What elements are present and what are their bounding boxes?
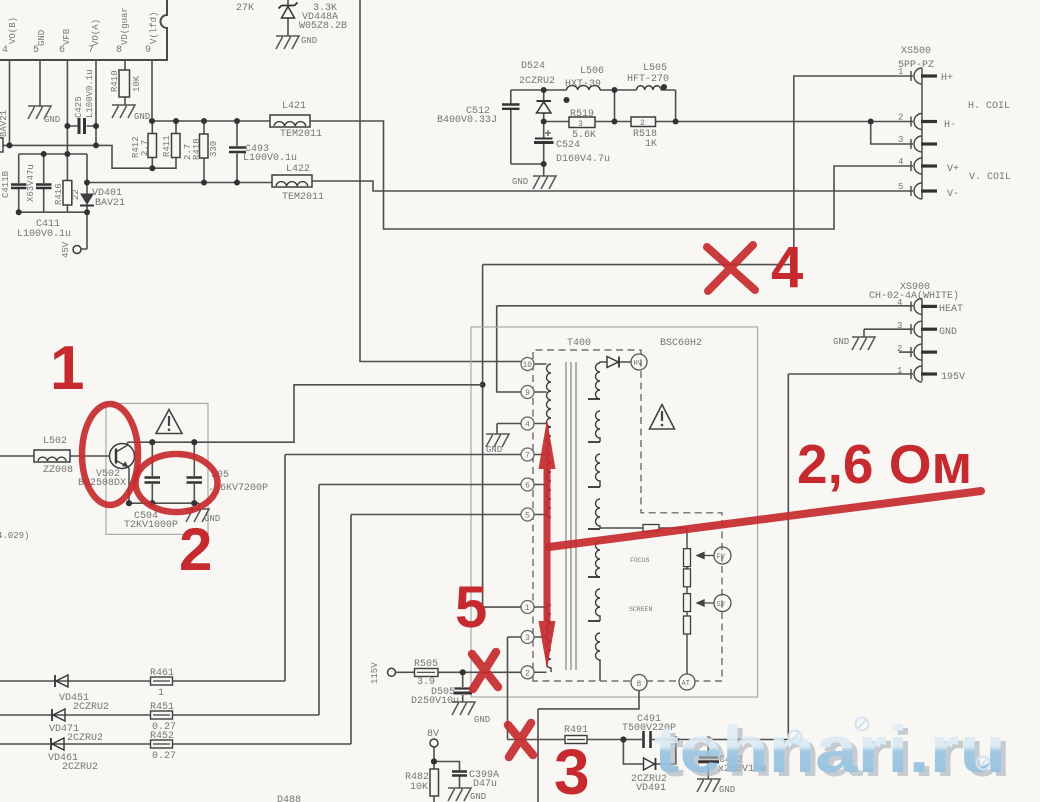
terminal 8V: [427, 729, 439, 747]
ground R410: [112, 105, 150, 122]
svg-text:2: 2: [525, 669, 530, 678]
svg-text:CH-02-4A(WHITE): CH-02-4A(WHITE): [869, 290, 959, 302]
terminal -45V: [61, 241, 81, 258]
capacitor C491 T500V220P: [622, 714, 676, 748]
wire focus tap: [600, 528, 687, 549]
wire 115V to T400 pin2: [463, 671, 521, 673]
svg-text:2,6 Ом: 2,6 Ом: [797, 433, 972, 495]
focus/screen divider resistor 4: [684, 616, 691, 634]
svg-text:4: 4: [897, 298, 902, 308]
svg-text:0.27: 0.27: [152, 751, 176, 762]
wire L422 to V- route: [312, 181, 913, 191]
svg-text:D250V10u: D250V10u: [411, 696, 459, 707]
svg-text:R491: R491: [564, 725, 588, 736]
svg-text:W05Z8.2B: W05Z8.2B: [299, 21, 347, 32]
svg-text:L502: L502: [43, 436, 67, 447]
diode VD451 2CZRU2: [55, 675, 109, 713]
svg-text:BSC60H2: BSC60H2: [660, 338, 702, 349]
left edge component fragment: [0, 110, 9, 152]
wire rail y121: [152, 120, 270, 122]
terminal 115V: [370, 662, 396, 684]
warning triangle V502: [156, 410, 182, 434]
pin 1 195V: [911, 366, 937, 382]
svg-text:2: 2: [898, 113, 903, 123]
capacitor C411B: [1, 154, 27, 212]
pin 4 V+: [911, 158, 937, 174]
svg-text:SCREEN: SCREEN: [629, 606, 653, 613]
svg-text:FOCUS: FOCUS: [630, 557, 650, 564]
svg-text:10: 10: [523, 361, 533, 370]
svg-text:27K: 27K: [236, 3, 254, 14]
svg-text:330: 330: [209, 141, 219, 157]
svg-text:D524: D524: [521, 61, 545, 72]
red annotation ellipse around V502: [82, 404, 138, 505]
svg-text:L100V0.1u: L100V0.1u: [243, 153, 297, 164]
svg-text:1: 1: [898, 67, 903, 77]
T400 secondary winding: [596, 363, 601, 667]
svg-text:115V: 115V: [370, 662, 380, 684]
pin 2 H-: [911, 114, 937, 130]
svg-text:D160V4.7u: D160V4.7u: [556, 154, 610, 165]
svg-text:R451: R451: [150, 702, 174, 713]
inductor L421 TEM2011: [270, 101, 322, 140]
svg-text:HXT-39: HXT-39: [565, 79, 601, 90]
wire pin4 down: [9, 60, 11, 145]
ground D524: [512, 176, 556, 189]
svg-text:8: 8: [637, 680, 642, 689]
svg-text:2CZRU2: 2CZRU2: [67, 733, 103, 744]
ground C399A: [448, 788, 486, 802]
T400 primary winding lower: [547, 605, 552, 672]
capacitor C505 1.6KV7200P: [187, 442, 269, 503]
resistor R518 1K: [595, 117, 676, 150]
transformer T400 outer box: [471, 327, 758, 697]
svg-text:GND: GND: [474, 715, 490, 725]
svg-text:V+: V+: [947, 164, 959, 175]
junction dots top-left: [7, 118, 241, 215]
HV terminal circle: [631, 354, 647, 370]
FV wiper arrow: [697, 553, 714, 559]
wire pin7 down: [95, 60, 97, 145]
svg-text:R452: R452: [150, 731, 174, 742]
red annotation X mark at R491: [508, 723, 533, 757]
connector XS500 5PP-PZ: [898, 46, 1011, 200]
capacitor C492 x250V10u: [698, 740, 766, 780]
svg-text:R505: R505: [414, 659, 438, 670]
svg-text:V. COIL: V. COIL: [969, 172, 1011, 183]
svg-text:3: 3: [578, 120, 583, 129]
svg-text:3: 3: [525, 634, 530, 643]
svg-text:L100V0.1u: L100V0.1u: [85, 69, 95, 118]
wire pin8 to R410: [124, 60, 126, 105]
ground D505: [452, 702, 490, 725]
diode VD491 2CZRU2: [623, 740, 675, 795]
svg-text:10K: 10K: [410, 782, 428, 793]
resistor R491: [564, 725, 588, 744]
wire T400 pin6 left-down: [319, 485, 521, 716]
zener VD448A W05Z8.2B: [279, 0, 348, 36]
svg-text:6: 6: [59, 45, 65, 56]
junction dots D524 area: [541, 84, 874, 167]
svg-text:10K: 10K: [132, 75, 142, 92]
svg-text:VO(A): VO(A): [91, 19, 101, 46]
svg-text:T400: T400: [567, 338, 591, 349]
svg-text:9: 9: [525, 389, 530, 398]
inductor L422 TEM2011: [272, 164, 324, 203]
wire 195V line: [788, 374, 913, 739]
wire bottom rail left sub: [19, 211, 87, 213]
svg-text:C524: C524: [556, 140, 580, 151]
wire T400 pin7 left-down: [285, 455, 521, 682]
ground pin5: [28, 106, 60, 125]
svg-text:GND: GND: [512, 177, 528, 187]
svg-text:L100V0.1u: L100V0.1u: [17, 229, 71, 240]
svg-text:4: 4: [2, 45, 8, 56]
wire T400 pin8 down-route: [538, 691, 639, 802]
wire rail y744: [0, 743, 351, 745]
svg-text:L505: L505: [643, 63, 667, 74]
svg-text:5.6K: 5.6K: [572, 130, 596, 141]
resistor R410 10K: [110, 70, 142, 97]
svg-text:GND: GND: [44, 115, 60, 125]
watermark tehnari.ru: [654, 712, 1011, 790]
wire T400 pin4 to ground: [497, 424, 521, 435]
focus/screen divider resistor 3: [684, 594, 691, 612]
capacitor C524 D160V4.7u: [534, 122, 610, 166]
red annotation X mark big: [707, 245, 755, 291]
resistor focus series: [643, 525, 659, 532]
svg-text:GND: GND: [37, 30, 47, 46]
wire divider chain: [686, 567, 688, 674]
pin 3: [911, 136, 937, 152]
wire T400 pin1: [483, 606, 521, 608]
svg-text:2.7: 2.7: [140, 140, 150, 156]
wire secondary bottom: [599, 667, 601, 681]
capacitor C399A D47u: [431, 758, 499, 790]
T400 primary winding upper: [547, 364, 552, 517]
capacitor C512 B400V0.33J: [437, 90, 520, 164]
wire T400 pin5 left-down: [351, 515, 521, 745]
wire pin9 down: [151, 60, 153, 121]
svg-text:FV: FV: [717, 554, 726, 562]
svg-text:BAV21: BAV21: [0, 110, 9, 137]
resistor R461 1: [150, 668, 174, 699]
resistor R519 5.6K: [544, 109, 596, 141]
svg-text:R416: R416: [54, 183, 64, 205]
svg-text:1: 1: [897, 366, 902, 376]
svg-text:R411: R411: [162, 135, 172, 157]
diode VD401 BAV21: [80, 154, 125, 249]
svg-text:9: 9: [145, 45, 151, 56]
T400 pin 8: [631, 675, 647, 691]
wire VO rail: [3, 145, 176, 168]
focus/screen divider resistor 2: [684, 569, 691, 587]
wire H- line to XS500: [676, 121, 913, 123]
inductor L502 ZZ008: [34, 436, 73, 476]
diode D524 2CZRU2: [519, 61, 555, 122]
connector XS900 CH-02-4A(WHITE): [869, 282, 965, 383]
svg-text:L421: L421: [282, 101, 306, 112]
wire secondary top to HV: [600, 362, 631, 363]
ground zener: [276, 36, 317, 49]
capacitor X63V47u: [26, 154, 52, 212]
wire collector rail: [128, 385, 483, 442]
diode VD461 2CZRU2: [48, 738, 98, 773]
svg-text:GND: GND: [470, 792, 486, 802]
svg-text:2: 2: [640, 119, 645, 128]
diode VD471 2CZRU2: [49, 709, 103, 744]
svg-text:8V: 8V: [427, 729, 439, 740]
svg-text:22: 22: [71, 189, 81, 200]
svg-text:VD(guar: VD(guar: [120, 7, 130, 45]
svg-text:2CZRU2: 2CZRU2: [73, 702, 109, 713]
resistor R411: [162, 121, 180, 158]
svg-text:5: 5: [898, 182, 903, 192]
capacitor C504 T2KV1000P: [124, 442, 178, 531]
svg-text:HFT-270: HFT-270: [627, 74, 669, 85]
svg-text:X63V47u: X63V47u: [26, 164, 36, 202]
ground V502: [186, 509, 220, 524]
AT terminal: [679, 674, 695, 690]
focus/screen divider resistor 1: [684, 549, 691, 567]
wire rail y182.5: [87, 182, 272, 184]
svg-text:BAV21: BAV21: [95, 198, 125, 209]
red annotation double arrow: [539, 419, 556, 669]
svg-text:T2KV1000P: T2KV1000P: [124, 520, 178, 531]
svg-text:8: 8: [116, 45, 122, 56]
wire HEAT line: [497, 306, 913, 392]
svg-text:1: 1: [158, 688, 164, 699]
wire rail left sub y154: [19, 153, 87, 155]
svg-text:V-: V-: [947, 189, 959, 200]
svg-text:H. COIL: H. COIL: [968, 101, 1010, 112]
svg-text:C425: C425: [74, 96, 84, 118]
junction dot x482: [480, 382, 486, 388]
pin 4 HEAT: [911, 298, 937, 314]
svg-text:XS500: XS500: [901, 46, 931, 57]
junction dots V502: [126, 439, 197, 506]
wire emitter rail: [129, 503, 199, 509]
svg-text:D488: D488: [277, 795, 301, 802]
T400 core lines: [566, 362, 576, 670]
wire bottom rail D524: [511, 164, 544, 176]
svg-text:B400V0.33J: B400V0.33J: [437, 115, 497, 126]
svg-text:GND: GND: [301, 36, 317, 46]
svg-text:HV: HV: [634, 360, 643, 368]
wire pin5 to ground: [39, 60, 41, 107]
svg-text:4.029): 4.029): [0, 531, 29, 541]
inductor L506 HXT-39: [565, 66, 604, 90]
svg-text:C411B: C411B: [1, 170, 11, 198]
SV wiper arrow: [697, 600, 714, 606]
red annotation ellipse around C504/C505: [136, 454, 218, 512]
wire rail y681: [0, 680, 285, 682]
svg-text:2CZRU2: 2CZRU2: [62, 762, 98, 773]
svg-text:3: 3: [554, 736, 590, 802]
junction dots bottom: [460, 669, 712, 742]
svg-text:tehnari.ru: tehnari.ru: [654, 712, 1006, 786]
svg-text:3: 3: [898, 135, 903, 145]
wire XS900 pin2 stub: [899, 351, 913, 353]
svg-text:GND: GND: [939, 327, 957, 338]
wire H- branch to pin3: [871, 122, 913, 145]
svg-text:ZZ008: ZZ008: [43, 465, 73, 476]
resistor R505 3.9: [396, 659, 463, 688]
svg-text:TEM2011: TEM2011: [282, 192, 324, 203]
svg-text:R461: R461: [150, 668, 174, 679]
resistor R418 330: [183, 121, 219, 183]
resistor R452 0.27: [150, 731, 176, 762]
svg-text:D47u: D47u: [473, 779, 497, 790]
T400 dashed boundary: [533, 350, 722, 681]
svg-text:R519: R519: [570, 109, 594, 120]
svg-text:VFB: VFB: [62, 28, 72, 45]
svg-text:VO(B): VO(B): [8, 17, 18, 44]
wire T400 pin3 down-route: [508, 637, 522, 740]
wire L421 to V+ route: [310, 121, 913, 229]
svg-text:GND: GND: [134, 112, 150, 122]
ground C492: [697, 779, 735, 795]
svg-text:6: 6: [525, 482, 530, 491]
wire x360 to T400 pin10: [360, 0, 522, 362]
svg-text:AT: AT: [682, 680, 690, 688]
capacitor C493 L100V0.1u: [229, 121, 297, 183]
svg-text:1: 1: [50, 334, 84, 403]
svg-text:1: 1: [525, 604, 530, 613]
ground XS900: [833, 337, 875, 350]
wire x482.6 vertical net: [483, 76, 913, 607]
resistor R482 10K: [405, 769, 439, 802]
svg-text:2: 2: [179, 516, 212, 583]
capacitor C425 100V0.1u: [67, 69, 96, 134]
svg-text:4: 4: [525, 421, 530, 430]
T400 warning triangle: [650, 405, 675, 430]
svg-text:SV: SV: [717, 601, 726, 609]
svg-text:4: 4: [771, 235, 803, 300]
FV terminal: [714, 547, 731, 564]
red annotation X mark at pin2: [472, 652, 498, 689]
svg-text:V(lfd): V(lfd): [149, 12, 159, 44]
svg-text:GND: GND: [833, 337, 849, 347]
svg-text:4: 4: [898, 157, 903, 167]
HV diode: [607, 357, 619, 368]
svg-text:H-: H-: [944, 120, 956, 131]
wire pin6 down: [66, 60, 68, 154]
wire 8V down: [433, 747, 435, 769]
svg-text:R410: R410: [110, 70, 120, 92]
inductor L505 HFT-270: [627, 63, 669, 90]
svg-text:L506: L506: [580, 66, 604, 77]
resistor R451 0.27: [150, 702, 176, 733]
svg-text:195V: 195V: [941, 372, 965, 383]
pin 5 V-: [911, 183, 937, 199]
svg-text:H+: H+: [941, 73, 953, 84]
pin 2: [911, 344, 937, 360]
svg-text:GND: GND: [486, 445, 502, 455]
transistor V502 BU2508DX: [78, 442, 135, 503]
IC U401 body: [0, 0, 167, 60]
wire y739.5 rail: [508, 739, 789, 741]
wire base from left: [0, 455, 110, 457]
SV terminal: [714, 595, 731, 612]
svg-text:1K: 1K: [645, 139, 657, 150]
ground T400 pin4: [486, 434, 509, 455]
V502 subcircuit box: [106, 403, 208, 534]
wire L505 to H- rail: [615, 90, 676, 122]
pin 3 GND: [911, 321, 937, 337]
resistor R416 22: [54, 154, 81, 212]
svg-text:L422: L422: [286, 164, 310, 175]
svg-text:R418: R418: [192, 138, 202, 160]
resistor R412 2.7: [131, 121, 157, 168]
svg-text:45V: 45V: [61, 241, 71, 258]
svg-text:2CZRU2: 2CZRU2: [519, 76, 555, 87]
red annotation pointer line 2.6 Ohm: [549, 491, 981, 547]
wire rail y715: [0, 714, 319, 716]
pin 1 H+: [911, 68, 937, 84]
T400 pin circles left: [521, 358, 534, 679]
wire top rail y90: [511, 89, 676, 91]
svg-text:7: 7: [525, 452, 530, 461]
capacitor D505 D250V10u: [411, 672, 472, 707]
svg-text:5: 5: [455, 575, 487, 640]
wire T400 pin taps: [534, 364, 547, 672]
IC pin numbers 4-9: [2, 45, 151, 56]
wire XS900 pin3 to ground: [864, 329, 913, 337]
svg-text:HEAT: HEAT: [939, 304, 963, 315]
svg-text:TEM2011: TEM2011: [280, 129, 322, 140]
svg-text:5: 5: [525, 512, 530, 521]
